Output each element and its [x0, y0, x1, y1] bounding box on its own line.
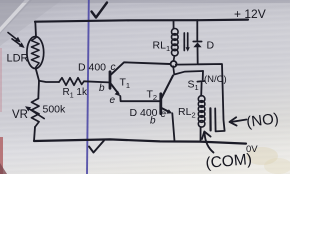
LDR envelope ellipse: [27, 37, 44, 69]
wire: junction to diode bottom: [176, 63, 197, 65]
svg-text:500k: 500k: [43, 104, 67, 116]
arrow to NO contact: [232, 120, 247, 122]
paper top edge shadow: [0, 0, 290, 3]
LDR light arrow 1: [8, 33, 19, 41]
blue ruled margin line: [87, 0, 89, 174]
svg-text:c: c: [111, 62, 116, 73]
red margin mark left lower: [0, 137, 3, 174]
svg-text:VR: VR: [12, 109, 28, 121]
node: divider junction to R1: [39, 81, 59, 82]
wire: junction down to S1 feed: [173, 66, 203, 74]
svg-text:(N/C): (N/C): [204, 74, 227, 85]
wire: +12V top rail: [35, 20, 248, 22]
transistor T2 bar: [159, 94, 162, 114]
diode D lower wire: [197, 47, 199, 64]
svg-text:b: b: [99, 83, 105, 94]
arrow to COM contact: [205, 134, 214, 153]
red margin mark left upper: [0, 48, 2, 112]
T2 collector wire: [162, 76, 174, 99]
dark corner bottom-left: [0, 163, 7, 174]
svg-text:S1: S1: [188, 79, 199, 93]
T1 emitter arrow: [111, 84, 119, 94]
wire: T2 emitter to bottom rail: [172, 113, 174, 141]
blue checkmark top: [92, 3, 108, 18]
blue checkmark bottom: [89, 141, 104, 153]
relay coil RL2 loops: [198, 96, 205, 127]
paper corner shadow top-left: [0, 0, 32, 34]
T2 emitter arrow: [162, 108, 170, 112]
svg-text:RL2: RL2: [178, 106, 196, 120]
VR wiper arrow: [28, 108, 45, 119]
paper stain bottom right: [246, 147, 278, 165]
svg-text:(NO): (NO): [245, 110, 279, 131]
svg-text:e: e: [110, 95, 116, 106]
diode D vertical wire from rail: [196, 20, 198, 41]
wire: R1 to T1 base: [84, 81, 109, 82]
svg-text:D: D: [207, 40, 215, 52]
wire: diode bottom to NO branch: [198, 64, 225, 131]
wire: rail to relay coil RL1: [173, 21, 175, 29]
wire: VR to bottom rail: [34, 127, 35, 141]
contact S1 lower lead: [200, 83, 202, 96]
contact S1 upper lead: [202, 71, 204, 80]
svg-text:D 400: D 400: [78, 62, 106, 74]
contact pole bar (COM): [209, 108, 211, 130]
paper crease highlight: [0, 0, 29, 32]
svg-text:R1 1k: R1 1k: [63, 87, 88, 100]
svg-text:+ 12V: + 12V: [234, 7, 266, 21]
T1 collector wire: [111, 62, 170, 74]
svg-text:T1: T1: [120, 77, 131, 91]
svg-text:e: e: [161, 109, 167, 120]
variable resistor VR zigzag: [32, 99, 40, 128]
svg-text:T2: T2: [147, 89, 158, 103]
LDR light arrow 2: [12, 39, 22, 47]
resistor R1 zigzag: [59, 78, 84, 85]
svg-text:b: b: [150, 116, 156, 127]
relay core lines: [183, 33, 185, 51]
wire: T1 emitter to T2 base: [120, 96, 160, 101]
relay coil RL1 loops: [172, 29, 179, 56]
diode D triangle: [193, 42, 201, 47]
wire: 0V bottom rail: [34, 139, 246, 143]
contact S1 tick: [197, 80, 204, 83]
svg-text:(COM): (COM): [205, 151, 253, 172]
transistor T1 bar: [109, 72, 112, 88]
svg-text:RL1: RL1: [153, 40, 171, 54]
diode D cathode bar: [193, 41, 201, 43]
svg-text:LDR: LDR: [7, 53, 29, 65]
LDR zigzag element: [31, 38, 39, 68]
node: coil bottom junction circle: [171, 61, 177, 67]
wire: left column from rail to LDR: [34, 22, 37, 37]
wire: LDR to VR: [36, 68, 39, 99]
wire: RL2 to bottom rail: [200, 127, 202, 142]
